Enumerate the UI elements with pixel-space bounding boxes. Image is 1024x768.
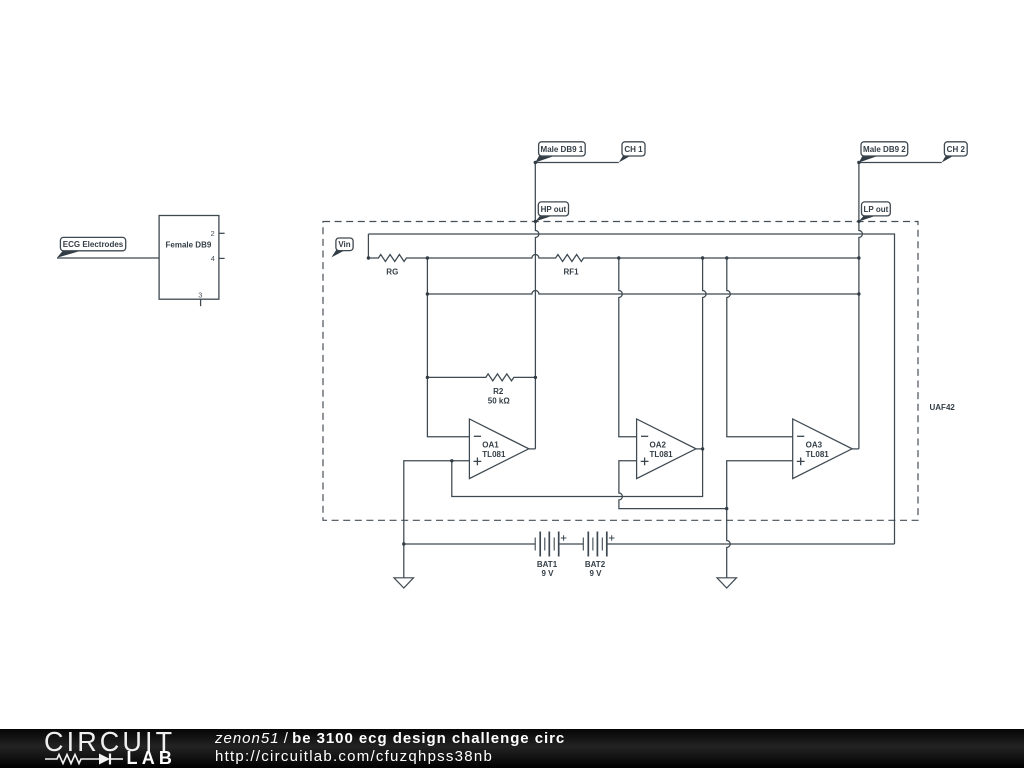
wire OA2 inverting input from rail (hops y=294) [619,258,637,437]
node OA2 minus rail junction [617,256,620,259]
node second rail right junction [857,292,860,295]
op-amp OA1 minus [474,435,481,437]
wire Male DB9 1 node to CH 1 [535,162,618,164]
battery BAT1 plus sign [561,535,567,541]
svg-text:50 kΩ: 50 kΩ [488,396,511,405]
op-amp OA1 triangle [469,419,528,479]
svg-text:ECG Electrodes: ECG Electrodes [63,240,124,249]
node OA2 output junction [701,447,704,450]
pin 2 tick [219,232,225,234]
wire OA1 inverting input from rail [427,258,469,437]
svg-text:OA3: OA3 [806,441,823,450]
wire OA2 output vertical to rail (hops y=294) [703,258,707,449]
svg-text:Male DB9 1: Male DB9 1 [541,145,584,154]
op-amp OA3 minus [797,435,804,437]
node Male DB9 2 anchor [857,161,860,164]
flag HP out [535,202,568,222]
title text [215,730,565,747]
svg-text:Vin: Vin [338,240,350,249]
flag ECG Electrodes [57,237,126,257]
svg-text:CH 1: CH 1 [624,145,643,154]
svg-text:Male DB9 2: Male DB9 2 [863,145,906,154]
junction dots [367,161,861,546]
svg-text:RF1: RF1 [563,268,579,277]
svg-text:BAT2: BAT2 [585,560,606,569]
wire OA1 + node to OA2 output [452,449,703,497]
wire Male DB9 1 down to HP out [534,163,536,222]
svg-text:BAT1: BAT1 [537,560,558,569]
battery BAT1 plates [535,532,559,557]
svg-text:TL081: TL081 [482,450,506,459]
svg-text:CH 2: CH 2 [947,145,966,154]
node OA1 plus junction [450,459,453,462]
battery BAT2 plates [583,532,607,557]
wire HP out vertical to OA1 output (hops top wire) [535,222,539,449]
url text [215,748,493,765]
wire Male DB9 2 node to CH 2 [859,162,942,164]
svg-text:OA2: OA2 [650,441,667,450]
svg-text:TL081: TL081 [650,450,674,459]
node second rail left junction [426,292,429,295]
wire battery rail right lead [607,543,895,545]
svg-text:2: 2 [211,229,215,238]
node LP out anchor [857,220,860,223]
op-amp OA2 triangle [637,419,696,479]
node OA3 minus rail junction [725,256,728,259]
op-amp OA2 minus [641,435,648,437]
wire ECG Electrodes to Female DB9 [57,257,159,259]
flag CH 2 [942,142,968,163]
node ground feed junction [725,507,728,510]
logo CIRCUIT [44,726,175,758]
wire top feedback rail and right drop to battery rail [368,234,894,544]
wire Vin stub [367,234,369,258]
wire second rail y=294 (hops at x=535.4) [427,291,859,295]
wire OA1 non-inverting input to left rail down to battery [404,461,470,544]
op-amp OA3 plus [797,458,805,466]
svg-text:R2: R2 [493,387,504,396]
node OA2 out rail junction [701,256,704,259]
node RG-right junction [426,256,429,259]
svg-text:UAF42: UAF42 [930,403,956,412]
flag LP out [859,202,890,222]
node battery left junction [402,542,405,545]
logo resistor-diode glyph [44,751,129,767]
ground symbol left [394,578,414,588]
wire OA3 inverting input from rail (hops y=294) [727,258,793,437]
wire battery rail left lead [404,543,535,545]
footer bar [0,729,1024,768]
connector J1 Female DB9 body [159,216,219,300]
svg-text:RG: RG [386,268,398,277]
wire OA1 output to vertical [529,448,536,450]
node R2 right terminal [534,376,537,379]
pin 3 tick [200,299,202,306]
wire Male DB9 2 down to LP out [858,163,860,222]
wire ground stem left [403,544,405,578]
wire ground feed right (hops battery rail) [727,509,731,578]
flags [57,142,967,258]
op-amp OA3 triangle [793,419,852,479]
resistor R2 with leads [427,374,535,381]
svg-text:OA1: OA1 [482,441,499,450]
component labels [166,240,606,578]
flag Male DB9 1 [535,142,585,163]
wire OA2 non-inverting input chain (hops y=496.5) [619,461,727,509]
ground symbol right [717,578,737,588]
node R2 left terminal [426,376,429,379]
svg-text:3: 3 [198,291,202,300]
wire OA3 non-inverting input chain [727,461,793,509]
wire OA2 output stub [696,448,703,450]
svg-text:9 V: 9 V [541,569,554,578]
svg-text:TL081: TL081 [806,450,830,459]
svg-text:9 V: 9 V [589,569,602,578]
node Male DB9 1 anchor [534,161,537,164]
node HP out anchor [534,220,537,223]
op-amp OA2 plus [641,458,649,466]
node LP rail junction [857,256,860,259]
wire between BAT1 and BAT2 [559,543,584,545]
op-amp OA1 plus [474,458,482,466]
wire input rail with RG and RF1 (hops at x=535.4) [368,255,859,262]
node Vin rail start [367,256,370,259]
svg-text:4: 4 [211,254,215,263]
logo LAB [127,748,177,768]
pin 4 tick [219,257,225,259]
svg-text:LP out: LP out [864,205,889,214]
pin numbers [198,229,215,300]
svg-text:Female DB9: Female DB9 [166,240,212,249]
svg-text:HP out: HP out [541,205,567,214]
flag Male DB9 2 [859,142,908,163]
flag CH 1 [619,142,645,163]
battery BAT2 plus sign [609,535,615,541]
wire LP out vertical to OA3 output (hops top wire) [859,221,863,449]
wire OA3 output stub [852,448,859,450]
dashed box UAF42 module boundary [323,222,918,521]
flag Vin [331,238,353,257]
